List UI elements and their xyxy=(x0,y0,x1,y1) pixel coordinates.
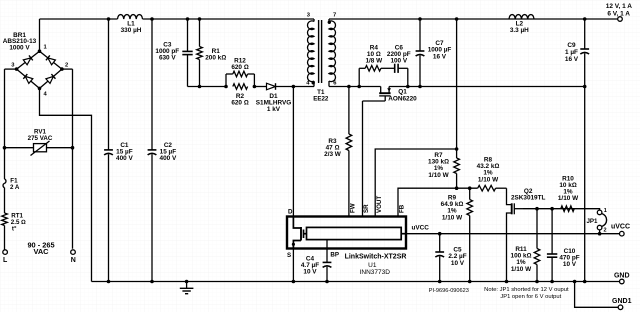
capacitor C4 xyxy=(301,256,332,282)
transistor Q1 xyxy=(379,87,417,103)
svg-text:630 V: 630 V xyxy=(159,55,176,62)
wire BR1 pin4 down-right xyxy=(40,88,92,281)
wire VOUT to output rail xyxy=(375,149,456,217)
junction JP1 to uVCC rail xyxy=(598,232,602,236)
U1 S pin wire xyxy=(292,249,294,282)
svg-text:N: N xyxy=(71,257,76,264)
svg-text:1/8 W: 1/8 W xyxy=(365,57,383,64)
T1 pin 3 label xyxy=(307,13,311,19)
svg-text:FB: FB xyxy=(399,204,406,213)
svg-text:VAC: VAC xyxy=(33,247,49,256)
svg-text:1/10 W: 1/10 W xyxy=(558,195,579,202)
capacitor C1 xyxy=(104,19,133,282)
svg-text:EE22: EE22 xyxy=(313,95,329,102)
svg-text:1/10 W: 1/10 W xyxy=(511,266,532,273)
U1 inner controller box xyxy=(307,227,402,239)
svg-text:VOUT: VOUT xyxy=(376,196,383,213)
junction Q2 source bottom xyxy=(505,280,509,284)
junction C9 column bottom xyxy=(583,280,587,284)
wire RT1 to L terminal xyxy=(4,226,6,250)
svg-text:GND1: GND1 xyxy=(612,298,632,305)
svg-text:2: 2 xyxy=(65,63,68,69)
wire D1 to T1 pin4 xyxy=(276,86,314,88)
BR1 pin 1 label xyxy=(44,45,48,51)
BR1 pin 3 label xyxy=(11,63,15,69)
junction C10 top xyxy=(550,207,554,211)
varistor RV1 xyxy=(5,128,73,155)
svg-text:6 V, 1 A: 6 V, 1 A xyxy=(607,10,630,17)
resistor R2 xyxy=(231,84,248,107)
svg-text:3.3 µH: 3.3 µH xyxy=(510,27,529,34)
T1 pin 7 label xyxy=(333,13,336,19)
junction S bottom xyxy=(292,280,296,284)
junction R1 bottom xyxy=(198,85,202,89)
svg-text:2 A: 2 A xyxy=(10,184,20,191)
junction C1 top xyxy=(107,17,111,21)
svg-text:PI-9696-090623: PI-9696-090623 xyxy=(429,288,469,294)
wire BR1 pin3 to L column xyxy=(5,69,17,148)
svg-text:275 VAC: 275 VAC xyxy=(28,135,53,142)
fuse F1 xyxy=(3,177,20,191)
U1 BP pin label xyxy=(330,252,339,259)
junction C9 return xyxy=(583,85,587,89)
T1 primary phase dot xyxy=(312,81,315,84)
svg-text:2SK3019TL: 2SK3019TL xyxy=(511,195,546,202)
svg-text:uVCC: uVCC xyxy=(412,225,430,232)
U1 SR pin label xyxy=(363,204,370,213)
svg-text:400 V: 400 V xyxy=(116,155,133,162)
terminal GND1 xyxy=(612,298,632,310)
U1 S pin label xyxy=(287,252,291,259)
U1 D pin label xyxy=(288,209,293,216)
svg-text:INN3773D: INN3773D xyxy=(360,269,391,276)
capacitor C5 xyxy=(435,234,466,282)
drawing number xyxy=(429,288,469,294)
terminal N xyxy=(71,250,76,264)
svg-text:1/10 W: 1/10 W xyxy=(478,176,499,183)
svg-text:620 Ω: 620 Ω xyxy=(231,100,248,107)
svg-text:D: D xyxy=(288,209,293,216)
wire L column RV1 to F1 xyxy=(4,148,6,179)
U1 uVCC pin wire xyxy=(401,225,429,234)
capacitor C7 xyxy=(416,19,452,87)
svg-text:16 V: 16 V xyxy=(433,53,447,60)
capacitor C9 xyxy=(565,19,589,87)
junction R11 top xyxy=(535,207,539,211)
T1 pin 4 label xyxy=(306,81,310,87)
junction R9 bottom xyxy=(468,280,472,284)
svg-text:2: 2 xyxy=(604,228,607,234)
U1 internal MOSFET xyxy=(292,217,307,249)
svg-text:2/3 W: 2/3 W xyxy=(324,151,342,158)
resistor R8 xyxy=(477,157,507,192)
BR1 pin 2 label xyxy=(65,63,68,69)
svg-text:16 V: 16 V xyxy=(565,56,579,63)
wire clamp node xyxy=(188,86,227,88)
svg-text:L: L xyxy=(3,257,8,264)
wire GND1 branch xyxy=(575,282,619,308)
capacitor C10 xyxy=(547,209,580,282)
junction C2 bottom xyxy=(150,280,154,284)
junction C10 bottom xyxy=(550,280,554,284)
ground symbol xyxy=(180,282,194,294)
T1 secondary phase dot xyxy=(328,21,331,24)
resistor R4 snubber xyxy=(359,44,395,86)
svg-text:1 kV: 1 kV xyxy=(267,106,281,113)
junction R3 top xyxy=(347,85,351,89)
bridge rectifier BR1 xyxy=(3,32,64,90)
junction R12-R2 right xyxy=(253,85,257,89)
transformer T1 secondary winding xyxy=(329,19,335,87)
resistor R1 xyxy=(197,19,227,87)
inductor L2 xyxy=(509,15,534,35)
wire VOUT column xyxy=(456,19,458,158)
svg-text:JP1: JP1 xyxy=(586,218,598,225)
U1 FW pin label xyxy=(349,203,356,213)
svg-text:10 V: 10 V xyxy=(451,260,465,267)
svg-text:12 V, 1 A: 12 V, 1 A xyxy=(606,3,633,10)
junction R9 top xyxy=(468,186,472,190)
junction R7 bottom xyxy=(455,186,459,190)
transistor Q2 xyxy=(507,188,546,281)
U1 VOUT pin label xyxy=(376,196,383,213)
U1 part number xyxy=(360,269,391,276)
U1 D pin wire xyxy=(292,87,294,217)
capacitor C2 xyxy=(148,19,177,282)
U1 refdes xyxy=(368,262,377,269)
svg-text:1/10 W: 1/10 W xyxy=(442,214,463,221)
junction R12-R2 left xyxy=(224,85,228,89)
terminal L xyxy=(3,250,8,264)
U1 BP pin wire xyxy=(326,240,328,263)
svg-text:LinkSwitch-XT2SR: LinkSwitch-XT2SR xyxy=(345,254,407,261)
junction GND1 branch xyxy=(573,280,577,284)
inductor L1 xyxy=(118,15,143,35)
svg-text:AON6220: AON6220 xyxy=(388,95,417,102)
op-amp U1 outer box xyxy=(287,217,406,249)
svg-text:SR: SR xyxy=(363,204,370,213)
junction C9 top xyxy=(583,17,587,21)
junction C1 bottom xyxy=(107,280,111,284)
resistor R7 xyxy=(428,152,459,188)
resistor R3 xyxy=(324,87,352,217)
svg-text:400 V: 400 V xyxy=(160,155,177,162)
capacitor C6 snubber xyxy=(387,44,411,86)
wire T1 pin6 to Q1 drain xyxy=(329,86,381,88)
svg-text:10 V: 10 V xyxy=(303,269,317,276)
svg-text:BP: BP xyxy=(330,252,339,259)
U1 part name xyxy=(345,254,407,261)
junction RV1 right xyxy=(71,146,75,150)
junction C4 bottom xyxy=(325,280,329,284)
wire C9 column down xyxy=(584,87,586,282)
svg-text:Note: JP1 shorted for 12 V ou: Note: JP1 shorted for 12 V ouput xyxy=(484,287,569,293)
resistor R11 xyxy=(511,209,540,282)
junction C3 top xyxy=(186,17,190,21)
note text xyxy=(484,287,569,300)
junction C7 top xyxy=(418,17,422,21)
svg-text:1000 V: 1000 V xyxy=(9,44,30,51)
terminal uVCC xyxy=(611,224,630,236)
label 90-265 VAC xyxy=(27,240,54,256)
resistor R12 xyxy=(226,58,254,87)
svg-text:uVCC: uVCC xyxy=(611,224,630,231)
resistor R10 xyxy=(558,175,579,211)
svg-text:10 V: 10 V xyxy=(563,261,577,268)
wire BR1 pin2 to N column xyxy=(62,69,73,249)
junction VOUT column top xyxy=(455,17,459,21)
svg-text:t°: t° xyxy=(12,225,17,232)
svg-text:1: 1 xyxy=(604,208,607,214)
wire Q1 source to C9 column xyxy=(389,86,585,88)
T1 label xyxy=(313,89,329,102)
junction R11 bottom xyxy=(535,280,539,284)
transformer T1 core xyxy=(319,20,322,83)
junction snubber left xyxy=(357,85,361,89)
transformer T1 primary winding xyxy=(308,19,314,87)
svg-text:S: S xyxy=(287,252,291,259)
terminal output xyxy=(618,17,623,22)
svg-text:7: 7 xyxy=(333,13,336,19)
svg-text:U1: U1 xyxy=(368,262,377,269)
U1 FB pin label xyxy=(399,204,406,213)
svg-text:620 Ω: 620 Ω xyxy=(231,64,248,71)
wire F1 to RT1 xyxy=(4,188,6,213)
capacitor C3 xyxy=(155,19,192,87)
wire top rail (L1 to T1 pin3) xyxy=(143,18,315,20)
junction snubber right xyxy=(406,85,410,89)
BR1 pin 4 label xyxy=(44,92,48,98)
terminal GND xyxy=(614,272,630,284)
junction RV1 left xyxy=(3,146,7,150)
svg-text:200 kΩ: 200 kΩ xyxy=(205,55,226,62)
T1 pin 6 label xyxy=(333,81,337,87)
junction C5 top xyxy=(438,232,442,236)
svg-text:1/10 W: 1/10 W xyxy=(428,172,449,179)
jumper JP1 xyxy=(586,208,606,234)
junction U1 drain tap xyxy=(292,85,296,89)
svg-text:GND: GND xyxy=(614,272,630,279)
wire R2 to D1 xyxy=(254,86,266,88)
wire top rail left (BR1 pin1 to L1) xyxy=(40,19,118,51)
svg-text:FW: FW xyxy=(349,203,356,213)
label output voltage xyxy=(606,3,633,17)
junction C2 top xyxy=(150,17,154,21)
wire uVCC rail xyxy=(406,233,620,235)
wire Q2 gate net xyxy=(523,208,598,210)
resistor R9 xyxy=(441,188,473,281)
wire FB pin to divider xyxy=(398,188,478,216)
wire Q1 gate to SR xyxy=(363,101,386,217)
junction C7 bottom xyxy=(418,85,422,89)
svg-text:JP1 open for 6 V output: JP1 open for 6 V output xyxy=(500,294,561,300)
diode D1 xyxy=(256,83,291,113)
wire top rail secondary xyxy=(329,18,618,20)
svg-text:100 V: 100 V xyxy=(390,57,407,64)
svg-text:330 µH: 330 µH xyxy=(121,27,142,34)
junction ground xyxy=(185,280,189,284)
junction VOUT tap xyxy=(455,147,459,151)
wire bottom rail xyxy=(92,281,620,283)
junction R1 top xyxy=(198,17,202,21)
junction C5 bottom xyxy=(438,280,442,284)
thermistor RT1 xyxy=(2,213,26,233)
